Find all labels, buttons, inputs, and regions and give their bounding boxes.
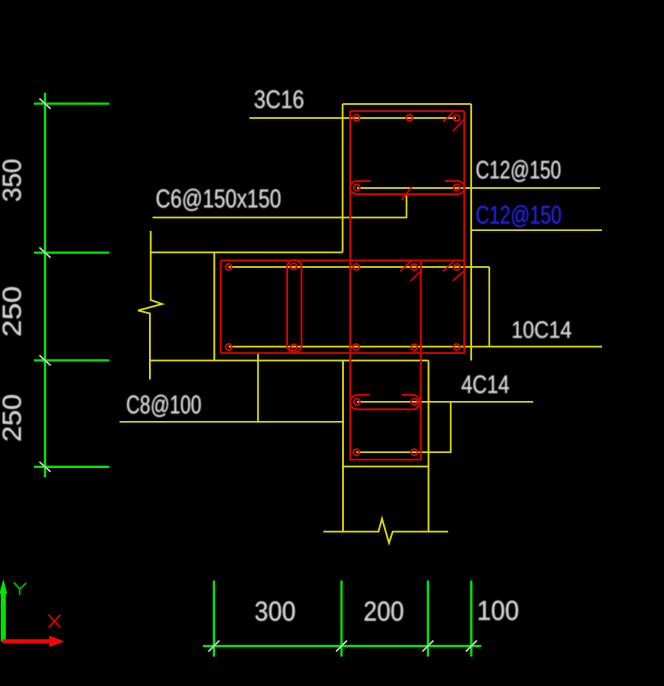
oblique tick bottom x214 — [208, 641, 219, 652]
label C8@100 — [127, 395, 201, 417]
ucs Y label — [14, 583, 26, 596]
dimension tick y360 — [34, 359, 109, 361]
column lower: left edge — [342, 361, 344, 532]
bar 4C14 circles — [354, 399, 360, 405]
slash C12 bar — [402, 187, 412, 200]
column lower: right edge — [428, 361, 430, 532]
lower column bottom bar circles — [353, 449, 359, 455]
dimension riser x214 — [213, 581, 215, 657]
bar C12 circles — [354, 184, 360, 190]
column upper: left edge — [342, 104, 344, 252]
beam top bar circles — [225, 264, 231, 270]
rebar C12 capsule — [350, 181, 464, 194]
leader: 10C14 top bars — [229, 266, 490, 268]
label dim 250 rotated lower — [3, 395, 22, 440]
beam bottom bar circles — [226, 344, 232, 350]
label C12@150 blue — [477, 205, 561, 227]
label dim 350 rotated — [3, 160, 22, 201]
leader: C8@100 vertical — [257, 353, 259, 422]
label 10C14 — [513, 321, 571, 338]
slash pair upper column bar — [443, 111, 454, 122]
leader: 4C14 vertical hook — [356, 402, 450, 452]
wire: foundation line with break symbol — [323, 519, 448, 543]
dimension tick y104 — [34, 102, 109, 104]
label dim 250 rotated upper — [3, 287, 22, 335]
oblique tick left y466 — [39, 462, 50, 472]
stirrup upper column: right leg — [463, 111, 465, 353]
slash pair beam bar at x414 — [400, 261, 411, 271]
label C6@150x150 — [157, 189, 281, 211]
dimension riser x471 — [470, 581, 472, 657]
leader: C12@150 white — [357, 187, 600, 189]
wire: beam left end edge — [213, 252, 215, 360]
oblique tick bottom x428 — [422, 641, 433, 652]
dimension line left vertical — [44, 93, 46, 477]
leader: 3C16 — [249, 117, 456, 119]
wire: foundation top line — [342, 466, 429, 468]
wire: beam bottom line — [151, 360, 429, 362]
dimension tick y466 — [34, 466, 109, 468]
stirrup beam: top — [221, 259, 465, 261]
oblique tick bottom x471 — [466, 641, 477, 652]
rebar 4C14 capsule — [350, 395, 420, 409]
column upper: right edge — [470, 104, 472, 361]
leader: C6@150x150 — [153, 196, 407, 218]
stirrup: left leg full height — [349, 111, 351, 460]
dimension riser x428 — [427, 581, 429, 657]
wire: beam top line — [151, 251, 343, 253]
leader: C8@100 underline — [120, 421, 345, 423]
ucs X label — [49, 615, 61, 628]
dimension tick y253 — [34, 251, 109, 253]
wire: left wall line with break symbol — [138, 231, 162, 380]
label 4C14 — [462, 375, 509, 393]
ucs Y axis — [0, 579, 7, 642]
slash pair beam bar at x457 — [443, 261, 454, 271]
leader: 10C14 vertical — [488, 267, 490, 347]
oblique tick left y360 — [39, 355, 50, 365]
stirrup: inner link loop — [287, 260, 301, 352]
stirrup lower column: bottom — [350, 459, 421, 461]
column upper: top edge — [343, 103, 472, 105]
label C12@150 white — [477, 160, 561, 182]
oblique tick left y104 — [39, 99, 50, 109]
stirrup upper column: top — [350, 110, 464, 112]
oblique tick bottom x341 — [336, 641, 347, 652]
label dim 100 — [479, 601, 518, 620]
ucs X axis — [3, 636, 65, 647]
label 3C16 — [255, 90, 304, 108]
oblique tick left y253 — [39, 248, 50, 258]
stirrup beam: bottom — [221, 352, 465, 354]
label dim 200 — [365, 601, 403, 620]
leader: 10C14 bottom bars / underline — [229, 346, 602, 348]
stirrup lower column: right leg — [420, 260, 422, 460]
leader: C12@150 blue underline — [470, 229, 602, 231]
leader: 4C14 — [357, 401, 533, 403]
dimension riser x341 — [340, 581, 342, 657]
stirrup beam: left leg — [220, 260, 222, 353]
dimension line bottom horizontal — [203, 645, 481, 647]
bar 3C16 circles — [353, 115, 359, 121]
label dim 300 — [255, 601, 294, 620]
